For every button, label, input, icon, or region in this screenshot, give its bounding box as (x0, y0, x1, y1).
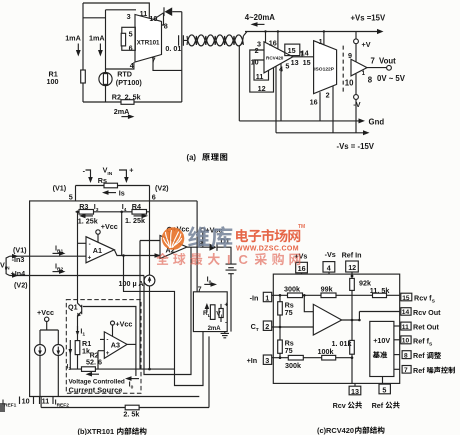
wire pin 1 riser (323, 32, 325, 46)
svg-text:-: - (106, 336, 108, 343)
svg-text:0V ~ 5V: 0V ~ 5V (377, 74, 406, 83)
svg-text:75: 75 (285, 308, 293, 317)
resistor Rs upper (279, 295, 281, 327)
pin box 14 / wire (359, 312, 399, 321)
svg-text:4: 4 (130, 61, 134, 70)
svg-text:A1: A1 (93, 246, 102, 255)
wire pin 2 riser (332, 86, 334, 133)
arrow I0 (204, 283, 211, 285)
twisted pair cable (187, 35, 243, 45)
wire A3 inputs (98, 339, 104, 369)
arrow load current (206, 306, 208, 313)
wire nested L1 (139, 241, 141, 370)
svg-text:-Vs: -Vs (325, 250, 336, 259)
source VL (220, 304, 222, 322)
diode D1 (210, 244, 217, 251)
span resistor box pins 5-6 (122, 27, 136, 50)
svg-text:4: 4 (327, 264, 331, 273)
wire pin 5 riser to gnd (280, 64, 282, 121)
resistor (span) (121, 33, 125, 46)
current source IREF1 (35, 345, 46, 356)
pin box 12 (346, 261, 359, 272)
wire pin12 riser (351, 272, 353, 278)
iso-amp U3 ISO122P (314, 41, 337, 94)
svg-text:9: 9 (348, 51, 352, 60)
R2 line (70, 368, 174, 370)
svg-text:-: - (89, 241, 91, 248)
wire top input line (272, 294, 400, 296)
svg-text:12: 12 (258, 84, 266, 93)
svg-text:5: 5 (129, 30, 133, 39)
wire inner loop top (106, 9, 137, 11)
svg-text:11. 5k: 11. 5k (370, 286, 390, 295)
pin box 11 / wire (394, 325, 400, 327)
op-amp U1 XTR101 body (135, 15, 162, 63)
svg-text:8: 8 (368, 75, 373, 84)
wire VIN bracket right (119, 170, 126, 178)
wire outer loop left (82, 3, 84, 102)
wire bottom input line (272, 357, 352, 359)
svg-text:15: 15 (303, 58, 311, 67)
svg-text:(V1): (V1) (53, 184, 67, 193)
arrow 4-20mA (255, 23, 265, 25)
arrow IB1 (53, 252, 60, 254)
svg-text:2. 5k: 2. 5k (123, 410, 139, 419)
wire inner loop left (105, 10, 107, 73)
svg-text:300k: 300k (284, 285, 300, 294)
load box (193, 292, 227, 332)
wire D1 to battery (217, 247, 231, 264)
terminal +Vcc A1 (96, 230, 100, 234)
battery (zener stack) (226, 264, 237, 274)
svg-text:7: 7 (371, 57, 375, 66)
svg-text:1mA: 1mA (65, 33, 81, 42)
svg-text:5: 5 (285, 62, 289, 71)
svg-text:(V2): (V2) (155, 183, 169, 192)
svg-text:1. 25k: 1. 25k (78, 217, 98, 226)
svg-text:11: 11 (140, 9, 148, 18)
wire pin 3 riser (265, 32, 267, 42)
svg-text:(V1): (V1) (13, 245, 27, 254)
wire R1 to R2 line (77, 355, 79, 370)
pin box 10 / wire (394, 339, 400, 341)
wire U2 output (293, 56, 314, 58)
resistor 11.5k (373, 293, 387, 297)
svg-text:2. 5k: 2. 5k (125, 93, 141, 102)
VIN source bracket (6, 256, 10, 275)
terminal -V (354, 95, 359, 100)
svg-text:12: 12 (348, 263, 356, 272)
svg-text:2: 2 (255, 46, 259, 55)
svg-text:Is: Is (119, 189, 125, 198)
svg-text:C: C (239, 252, 249, 267)
svg-text:1: 1 (319, 37, 323, 46)
svg-text:13: 13 (291, 58, 299, 67)
wire box right edge (196, 201, 198, 292)
resistor Rs lower (279, 327, 281, 358)
svg-text:14: 14 (301, 48, 309, 57)
svg-text:2mA: 2mA (114, 107, 130, 116)
svg-text:I: I (227, 252, 231, 267)
wire pin 16 riser (319, 92, 321, 121)
svg-text:10: 10 (402, 338, 410, 345)
op-amp A3 (104, 332, 127, 359)
svg-text:TM: TM (298, 224, 305, 230)
svg-text:5: 5 (69, 192, 73, 201)
input wire In3 (10, 255, 86, 257)
input wire In4 (10, 275, 144, 277)
wire pin 4 riser to -Vs (275, 66, 277, 133)
wire 92k to junctions (351, 290, 353, 340)
wire battery down to load (230, 274, 232, 332)
wire nested L2 (144, 247, 191, 374)
arrow on In4 (12, 273, 19, 278)
svg-text:6: 6 (129, 44, 133, 53)
svg-text:300k: 300k (285, 361, 301, 370)
svg-text:(b)XTR101: (b)XTR101 (78, 427, 115, 435)
svg-text:11: 11 (42, 396, 50, 405)
box pin 15 (285, 44, 300, 56)
wire bottom (83, 101, 182, 103)
svg-text:Current Source: Current Source (69, 385, 123, 394)
junction dots (c) (279, 294, 282, 297)
svg-text:+: + (106, 350, 110, 357)
arrow 1mA (77, 44, 79, 51)
svg-text:11: 11 (256, 72, 264, 81)
arrow 2mA (121, 116, 128, 118)
svg-text:Ref In: Ref In (342, 250, 362, 259)
arrow 1mA (99, 44, 101, 51)
svg-text:(c)RCV420: (c)RCV420 (317, 426, 354, 435)
junction dots (b) (120, 211, 123, 214)
svg-text:-In3: -In3 (12, 255, 25, 264)
-Vs rail (276, 132, 364, 134)
svg-text:Rcv Out: Rcv Out (413, 308, 441, 317)
arrow I4 (134, 215, 143, 217)
resistor 300k top (288, 293, 303, 298)
svg-text:2: 2 (326, 91, 330, 100)
wire output (367, 67, 387, 69)
current source 100uA (144, 275, 155, 286)
resistor 1.01k (350, 340, 355, 354)
wire pin4 riser (328, 272, 330, 274)
svg-text:10: 10 (251, 57, 259, 66)
RTD sensor (99, 72, 112, 85)
svg-text:+10V: +10V (373, 336, 390, 345)
terminal Vout (387, 65, 392, 70)
arrow on In3 (12, 254, 19, 259)
wire Rs line (76, 185, 150, 187)
resistor 99k (321, 293, 336, 298)
pin box 8 / wire (394, 354, 400, 356)
wire pin5 riser (382, 377, 384, 385)
arrow I0 out (129, 378, 139, 380)
svg-text:R3: R3 (79, 202, 88, 211)
pin box 7 / wire (394, 368, 400, 370)
svg-text:+V: +V (362, 40, 371, 49)
wire A1 out to A2 (114, 250, 160, 256)
pin box 1 (263, 292, 271, 301)
wire pin2 line (272, 326, 314, 328)
pin box 13 (349, 386, 361, 395)
resistor 92k (350, 278, 355, 290)
wire box15 to output (300, 52, 302, 57)
wire A2 minus stub (140, 240, 160, 242)
svg-text:-: - (225, 319, 227, 326)
svg-text:14: 14 (402, 309, 410, 316)
terminal +Vcc out (201, 228, 205, 232)
op-amp A1 (86, 237, 114, 263)
wire amp output (342, 319, 360, 321)
svg-text:16: 16 (310, 98, 318, 107)
svg-text:-In: -In (250, 293, 259, 302)
pin box 15 (401, 293, 412, 301)
wire pin6 riser / 100uA column (149, 186, 151, 276)
ground (221, 332, 229, 338)
wire emitter to R1 (77, 315, 79, 340)
op-amp U2 RCV420 (264, 42, 293, 73)
svg-text:1mA: 1mA (89, 33, 105, 42)
svg-text:15: 15 (402, 295, 410, 302)
wire diode to corner (172, 11, 182, 13)
wire outer loop top (83, 3, 149, 18)
arrow Is (106, 192, 116, 194)
svg-text:52. 6: 52. 6 (86, 358, 102, 367)
svg-text:6: 6 (152, 192, 156, 201)
wire pin 10 to diode (155, 13, 164, 19)
resistor Rs (104, 183, 118, 188)
op-amp (c) (313, 304, 341, 335)
svg-text:13: 13 (351, 387, 359, 396)
svg-text:+Vcc: +Vcc (115, 319, 132, 328)
wire pin13 riser (352, 358, 355, 387)
terminal +V (354, 39, 359, 44)
capacitor C 0.01 (179, 35, 188, 46)
svg-text:16: 16 (269, 38, 277, 47)
main box (c) (273, 274, 399, 383)
wire feedback loop pin 2/12 (250, 50, 274, 92)
svg-text:Ref: Ref (372, 401, 384, 410)
watermark text weiku (188, 226, 209, 247)
resistor 300k bottom (288, 355, 303, 360)
svg-text:Gnd: Gnd (369, 117, 385, 126)
wire A3 output (127, 343, 136, 345)
pin box 4 (323, 262, 335, 273)
arrow IB2 (53, 271, 60, 273)
pin box 2 (263, 321, 271, 330)
svg-text:R2: R2 (112, 93, 121, 102)
svg-text:A3: A3 (111, 341, 120, 350)
svg-text:R4: R4 (132, 202, 141, 211)
wire -V riser (355, 99, 357, 132)
svg-text:100k: 100k (318, 347, 334, 356)
arrow I3 (84, 215, 93, 217)
pin box 5 (379, 384, 390, 394)
op-amp A2 (160, 236, 187, 259)
junction dots (264, 30, 266, 32)
svg-text:3: 3 (127, 12, 131, 21)
svg-text:(PT100): (PT100) (116, 78, 143, 87)
svg-text:+Vcc: +Vcc (101, 222, 118, 231)
wire +V to op-amp (355, 44, 357, 62)
svg-text:Ret Out: Ret Out (413, 322, 440, 331)
dashed box current source (66, 300, 141, 394)
resistor R4 (132, 210, 147, 215)
svg-text:1: 1 (265, 293, 269, 302)
terminal +Vcc A3 (111, 321, 115, 325)
wire A1 minus branch (77, 212, 79, 304)
svg-text:Rcv: Rcv (333, 401, 346, 410)
+10V reference box (370, 321, 394, 376)
svg-text:8: 8 (404, 352, 408, 359)
svg-text:Ref: Ref (413, 366, 425, 375)
svg-text:+: + (224, 301, 228, 308)
svg-text:Rs: Rs (98, 176, 107, 185)
gnd rail (239, 120, 359, 122)
wire to +Vs rail (243, 32, 247, 36)
svg-text:3: 3 (265, 356, 269, 365)
resistor 100k (322, 355, 336, 360)
resistor R2 (b) (82, 367, 96, 372)
svg-text:+: + (129, 166, 133, 175)
svg-text:100: 100 (47, 77, 59, 86)
isolation barrier dashed (342, 46, 344, 93)
scan smudge (0, 403, 5, 412)
svg-text:99k: 99k (321, 284, 333, 293)
op-amp A output (351, 59, 367, 76)
wire RTD top to pin 4 (106, 62, 134, 69)
pin box 3 (263, 355, 271, 364)
wire pin 7 to loop bottom (153, 57, 182, 70)
svg-text:2mA: 2mA (208, 326, 222, 332)
svg-text:5: 5 (382, 385, 386, 394)
wire inner link (83, 17, 106, 19)
svg-text:-V: -V (353, 100, 360, 109)
svg-text:75: 75 (285, 346, 293, 355)
svg-text:+In: +In (247, 356, 258, 365)
watermark text dzsc (236, 229, 248, 242)
current source bias +Vcc (45, 317, 49, 321)
wire op-amp to -V (355, 74, 357, 95)
wire pin5 riser (75, 186, 77, 201)
wire A2 output (187, 246, 210, 248)
svg-text:XTR101: XTR101 (137, 40, 160, 47)
wire pin 16 riser (277, 32, 279, 50)
svg-text:RCV420: RCV420 (266, 55, 284, 60)
svg-text:2: 2 (265, 322, 269, 331)
svg-text:(V2): (V2) (14, 280, 28, 289)
wire right loop vertical (181, 12, 183, 102)
watermark slogan (156, 253, 169, 265)
wire R3R4 line (76, 211, 150, 213)
svg-text:10: 10 (345, 79, 354, 88)
svg-text:+: + (88, 254, 92, 261)
wire pin 8 (162, 13, 164, 25)
wire A1 out feedback L (124, 256, 204, 386)
svg-text:0. 01: 0. 01 (165, 44, 181, 53)
arrow on R2 line (86, 372, 93, 377)
wire pin16 riser (301, 273, 303, 274)
wire feedback loop pin 10/11 (254, 60, 269, 80)
svg-text:+In4: +In4 (11, 269, 26, 278)
svg-text:11: 11 (402, 324, 409, 331)
svg-text:+Vs =15V: +Vs =15V (351, 14, 386, 23)
svg-text:Ref: Ref (413, 351, 425, 360)
resistor R1 (81, 70, 86, 83)
svg-text:8: 8 (164, 22, 168, 31)
wire sources to bottom (40, 356, 58, 397)
pin box 16 (296, 262, 308, 273)
svg-text:4~20mA: 4~20mA (245, 13, 275, 22)
resistor 2.5k ext (125, 405, 139, 410)
+Vs rail (245, 31, 378, 33)
box (b) outline (30, 201, 200, 397)
pin ticks 10 (20, 397, 34, 405)
pin ticks 11 (40, 397, 54, 405)
svg-text:-Vs = -15V: -Vs = -15V (337, 142, 375, 151)
resistor R1 (b) (75, 341, 80, 355)
wire amp - input (304, 295, 313, 311)
svg-text:1: 1 (362, 70, 366, 77)
wire center junction riser (121, 212, 123, 256)
terminal +Vcc A2 (167, 227, 171, 231)
watermark logo (162, 227, 185, 250)
svg-text:(a): (a) (187, 153, 197, 162)
wire return to gnd (239, 43, 243, 121)
svg-text:7: 7 (404, 367, 408, 374)
svg-text:15: 15 (288, 46, 296, 55)
2.5k line (41, 336, 209, 407)
svg-text:1. 01k: 1. 01k (332, 339, 352, 348)
current source IREF2 (53, 345, 64, 356)
resistor R3 (79, 210, 94, 215)
svg-text:1. 25k: 1. 25k (125, 216, 145, 225)
wire left edge current arrow (69, 340, 71, 369)
svg-text:10: 10 (22, 396, 30, 405)
resistor R2 (121, 100, 134, 105)
svg-text:ISO122P: ISO122P (314, 67, 335, 73)
svg-text:Q1: Q1 (68, 303, 78, 312)
svg-text:+Vcc: +Vcc (37, 308, 54, 317)
svg-text:7: 7 (152, 56, 156, 65)
svg-text:Vout: Vout (379, 57, 396, 66)
resistor RL (210, 305, 215, 320)
diode D (loop) (163, 7, 165, 16)
svg-text:16: 16 (298, 264, 306, 273)
svg-text:10: 10 (149, 14, 157, 23)
inner box (83, 307, 136, 377)
wire VIN bracket left (86, 170, 91, 178)
